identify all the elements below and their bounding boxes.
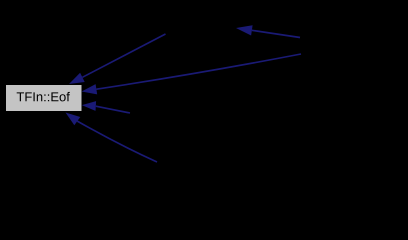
node TFIn::Eof [6,85,82,111]
edge E wire [77,121,157,162]
edge E arrowhead [66,113,81,126]
edge B wire [252,30,300,37]
edge A wire [82,34,165,77]
edge D wire [96,106,130,113]
edge D arrowhead [82,101,96,111]
edge A arrowhead [69,73,85,84]
edge C arrowhead [82,84,98,94]
edge B arrowhead [236,25,253,35]
edge C wire [96,54,301,89]
